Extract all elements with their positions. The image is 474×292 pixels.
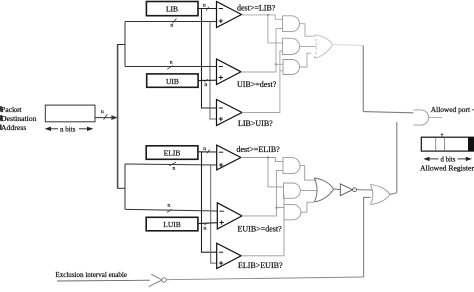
comparator C4: [217, 145, 241, 170]
wire riser OR3 to allowed-port gate: [396, 122, 398, 192]
wire dest riser to comparator C6: [211, 165, 217, 263]
register UIB: [147, 74, 198, 87]
wire ELIB output: [198, 151, 217, 153]
tick dest line 3: [169, 162, 176, 166]
svg-text:ELIB: ELIB: [164, 149, 181, 158]
wire UIB output: [198, 79, 217, 81]
wire LIB output: [197, 8, 217, 10]
wire dest line 1: [125, 21, 217, 23]
wire fan vertical top: [124, 22, 126, 67]
tick LIB output: [206, 7, 209, 11]
svg-text:EUIB>=dest?: EUIB>=dest?: [238, 224, 283, 233]
svg-text:n: n: [203, 2, 206, 8]
switch exclusion enable: [149, 274, 167, 286]
or-gate OR3: [370, 185, 389, 205]
tick LUIB output: [204, 223, 208, 225]
svg-text:n: n: [205, 82, 208, 88]
register ELIB: [146, 146, 198, 160]
d bits dimension arrows: [423, 157, 472, 161]
allowed register top tick: [441, 133, 444, 137]
node junction C1 branch: [267, 14, 269, 16]
and-gate AND4: [283, 158, 300, 174]
svg-text:Exclusion interval enable: Exclusion interval enable: [55, 271, 127, 279]
allowed register box: [421, 137, 474, 151]
svg-text:Packet: Packet: [1, 105, 22, 114]
comparator C2: [217, 59, 242, 85]
wire dest riser to comparator C3: [210, 22, 217, 120]
and-gate AND2: [283, 38, 300, 54]
register LUIB: [146, 217, 198, 231]
wire OR3 output: [390, 193, 397, 195]
wire inverter output to OR3: [357, 189, 373, 191]
wire C6 output to AND6: [241, 195, 284, 256]
and-gate allowed-port: [413, 110, 428, 125]
tick dest line 2: [167, 66, 173, 70]
wire exclusion enable lead: [57, 279, 150, 282]
main vertical bus: [117, 45, 119, 189]
wire AND2 output to OR1: [300, 45, 316, 47]
wire C5 output to AND4: [242, 170, 283, 216]
comparator C1: [217, 2, 242, 28]
svg-text:n: n: [170, 59, 173, 65]
wire dest line 3: [125, 164, 217, 165]
wire OR2 output to inverter: [334, 188, 341, 191]
and-gate AND5: [284, 183, 301, 198]
wire AND4 output to OR2: [300, 166, 317, 181]
wire register to bus with arrowhead: [95, 115, 118, 120]
svg-text:n: n: [203, 146, 206, 152]
wire fan vertical bottom: [124, 164, 126, 209]
wire allowed-port gate top input: [363, 112, 413, 113]
wire C4 branch to AND5: [268, 158, 284, 187]
tick UIB output: [204, 79, 208, 81]
and-gate AND1: [283, 16, 300, 32]
svg-text:ELIB>EUIB?: ELIB>EUIB?: [238, 261, 283, 270]
register LIB: [146, 2, 198, 16]
svg-text:n: n: [168, 203, 171, 209]
allowed register end cap: [468, 137, 474, 151]
wire C2 output to AND1: [241, 29, 283, 72]
node junction C2 branch: [275, 63, 277, 65]
comparator C6: [217, 243, 242, 268]
wire exclusion enable run: [166, 277, 363, 280]
svg-text:LIB: LIB: [166, 4, 178, 13]
and-gate AND6: [284, 205, 301, 220]
svg-text:UIB: UIB: [166, 77, 179, 86]
svg-text:dest>=LIB?: dest>=LIB?: [237, 4, 276, 13]
wire bus jog top: [117, 44, 125, 46]
wire riser OR1 to allowed-port gate: [362, 46, 364, 112]
wire C3 branch to AND3: [280, 70, 283, 72]
or-gate OR1: [314, 35, 333, 58]
wire LUIB output: [198, 222, 217, 225]
node junction C5 branch: [275, 207, 277, 209]
wire LIB riser to comparator C3: [202, 9, 217, 108]
wire AND6 output to OR2: [301, 202, 314, 212]
svg-text:d bits: d bits: [441, 156, 456, 163]
or-gate OR2: [314, 178, 333, 202]
svg-text:UIB>=dest?: UIB>=dest?: [237, 80, 277, 89]
wire C3 output to AND2: [242, 51, 283, 113]
node junction C4 branch: [267, 156, 269, 158]
svg-text:dest>=ELIB?: dest>=ELIB?: [237, 145, 281, 154]
comparator C3: [217, 100, 243, 126]
svg-text:n: n: [171, 22, 174, 28]
and-gate AND3: [283, 60, 299, 75]
svg-text:LIB>UIB?: LIB>UIB?: [238, 119, 273, 128]
wire exclusion riser to OR3: [364, 197, 371, 277]
svg-text:Allowed port: Allowed port: [431, 105, 471, 114]
tick ELIB output: [207, 150, 210, 154]
svg-text:LUIB: LUIB: [163, 220, 181, 229]
svg-text:n bits: n bits: [60, 125, 76, 133]
wire dest line 4: [125, 209, 217, 211]
svg-text:Address: Address: [1, 123, 26, 132]
packet destination register: [45, 105, 95, 122]
wire C4 output to AND4: [241, 158, 283, 162]
wire OR1 output: [333, 45, 364, 46]
wire C5 branch to AND6: [276, 207, 284, 209]
wire bus jog bottom: [117, 187, 125, 189]
svg-text:n: n: [173, 165, 176, 171]
wire AND5 output to OR2: [300, 190, 316, 192]
wire C1 output to AND1: [242, 15, 283, 19]
svg-text:Allowed Register: Allowed Register: [420, 164, 474, 173]
wire AND3 output to OR1: [300, 53, 312, 67]
svg-text:Destination: Destination: [1, 114, 37, 123]
allowed register divider 1: [435, 138, 437, 151]
wire C1 branch to AND2: [268, 15, 283, 43]
wire AND1 output to OR1: [299, 24, 313, 37]
n bits dimension arrows: [45, 127, 94, 131]
wire allowed-port output: [429, 117, 442, 119]
wire ELIB riser to comparator C6: [202, 152, 217, 252]
bus width tick: [104, 114, 108, 119]
inverter NOT1: [340, 184, 356, 196]
svg-text:n: n: [101, 109, 104, 115]
wire dest line 2: [125, 66, 217, 68]
allowed register divider 2: [444, 138, 446, 151]
tick dest line 4: [167, 209, 172, 212]
artifact dash after Allowed port: [472, 109, 474, 111]
tick dest line 1: [173, 19, 177, 24]
svg-text:n: n: [204, 226, 207, 232]
wire C2 branch to AND3: [276, 63, 283, 65]
Packet Destination Address label: [1, 105, 37, 132]
scan artifact marks at left edge: [0, 106, 2, 111]
comparator C5: [217, 203, 242, 229]
